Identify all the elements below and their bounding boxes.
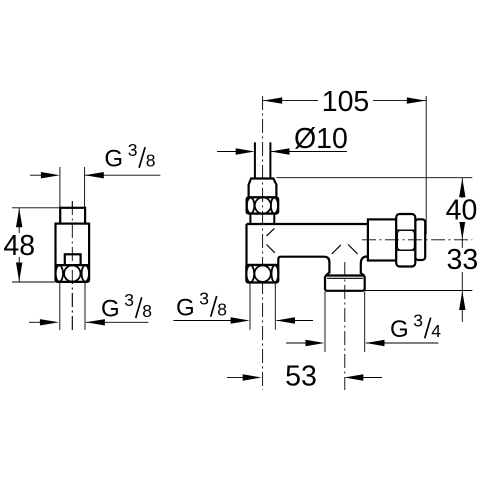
40 / 33 dimensions right side [277,178,473,322]
svg-text:40: 40 [446,195,478,227]
diagonal centerline marks [267,228,358,254]
svg-text:105: 105 [322,86,370,118]
label G 3/4 [390,310,441,343]
right outlet horizontal centerline (also 40/33 boundary ext) [362,239,472,241]
svg-text:33: 33 [447,244,479,276]
dimension 48 extension lines [12,208,60,282]
label 48 [2,233,37,257]
Ø10 dimension [217,151,347,153]
bottom hex nut of inlet [246,265,278,283]
bottom outlet vertical centerline (53 right ext) [344,262,346,390]
svg-text:8: 8 [146,151,156,171]
G3/8 center dimension [174,320,314,322]
G3/4 dimension [286,292,438,353]
svg-text:G: G [104,146,123,173]
dimension 105 line [263,100,426,102]
svg-text:G: G [390,316,409,343]
left part hex nut [56,265,90,282]
svg-text:G: G [176,294,195,321]
left part body top cap [60,208,85,224]
inlet pipe lower extension lines [250,284,275,330]
svg-text:3: 3 [413,310,423,330]
inlet pipe [255,142,271,178]
dimension G3/8 top-left arrows [30,174,160,176]
105 right extension line [425,96,427,234]
label G 3/8 bottom-left [101,290,152,323]
dimension 105 arrows [263,97,282,103]
valve body outline [247,224,368,276]
right outlet cylinder [368,219,396,260]
dimension G3/8 bottom-left arrows [29,321,148,323]
label G 3/8 center [176,289,227,322]
inlet collar [250,214,274,224]
53 dimension [227,377,382,379]
svg-text:53: 53 [285,360,317,392]
label 40 [444,198,480,222]
label 33 [444,248,480,272]
svg-text:4: 4 [431,321,441,341]
svg-text:Ø10: Ø10 [294,123,348,155]
svg-text:3: 3 [124,290,134,310]
label 105 [318,89,373,112]
body bottom outlet flange G3/4 [325,276,365,291]
svg-text:G: G [101,296,120,323]
dimension 48 arrows [16,208,22,227]
inlet cone cap [249,179,277,198]
union nut [396,214,415,267]
svg-text:8: 8 [217,300,227,320]
svg-text:48: 48 [3,230,35,262]
svg-text:3: 3 [128,140,138,160]
left part inner square [65,254,81,265]
svg-text:3: 3 [199,289,209,309]
inlet centerline (also 105 left ext and 53 left ext) [262,96,264,390]
inlet hex nut [247,197,279,213]
left part main body [56,224,90,266]
extension lines G3/8 top-left [60,167,85,207]
label G 3/8 top-left [104,140,155,173]
centerline left part [71,201,73,330]
extension lines G3/8 bottom-left [60,283,85,330]
left part centerline redraw over body [71,201,73,330]
svg-text:8: 8 [142,301,152,321]
right outlet end piece [415,219,425,260]
